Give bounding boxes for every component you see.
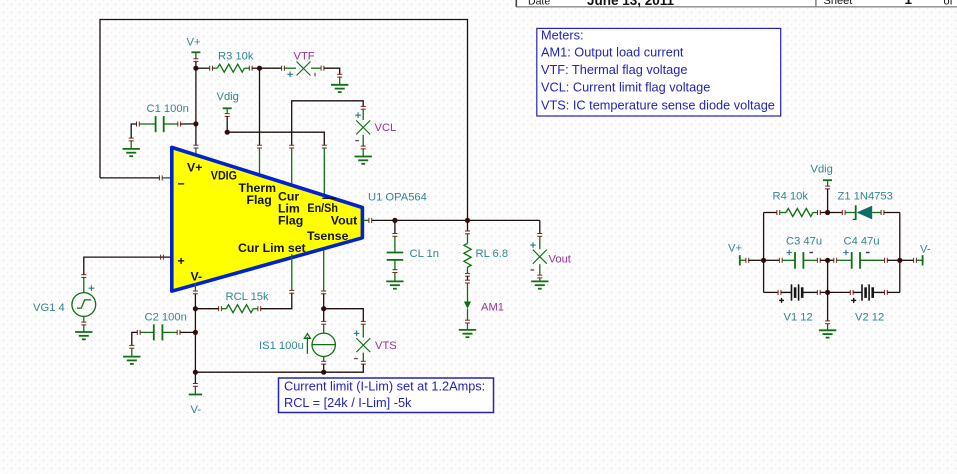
svg-text:R3 10k: R3 10k <box>218 50 254 62</box>
node junction battery center <box>825 290 830 295</box>
svg-text:Sheet: Sheet <box>824 0 853 7</box>
capacitor CL 1n <box>387 220 439 272</box>
svg-text:C4 47u: C4 47u <box>844 236 880 248</box>
pin cross C1 ground <box>129 138 134 141</box>
node junction left rail mid <box>761 258 766 263</box>
terminal V- bottom <box>189 386 202 416</box>
svg-text:RCL = [24k / I-Lim] -5k: RCL = [24k / I-Lim] -5k <box>284 395 412 410</box>
svg-text:V1 12: V1 12 <box>784 312 813 324</box>
ground VTF <box>339 77 341 84</box>
pin cross supply ground <box>825 321 830 324</box>
svg-text:VCL: Current limit flag voltag: VCL: Current limit flag voltage <box>541 79 710 94</box>
svg-text:IS1 100u: IS1 100u <box>259 340 304 352</box>
svg-text:Meters:: Meters: <box>541 27 584 42</box>
wire Therm Flag vertical <box>259 68 261 145</box>
pin cross op-amp Cur Lim Flag pin <box>289 145 294 148</box>
svg-text:VTS: IC temperature sense diod: VTS: IC temperature sense diode voltage <box>541 98 775 113</box>
node junction Tsense/VTS <box>321 306 326 311</box>
wire C2 left to ground <box>132 332 138 345</box>
svg-text:Date: Date <box>528 0 550 8</box>
pin lead En/Sh <box>323 148 325 197</box>
svg-text:Vdig: Vdig <box>217 91 239 103</box>
svg-text:+: + <box>178 254 185 268</box>
current limit note box <box>279 378 494 413</box>
wire center to ground <box>827 292 829 321</box>
svg-text:Flag: Flag <box>247 193 272 207</box>
svg-text:1: 1 <box>905 0 913 7</box>
generator VG1 4 <box>33 277 96 325</box>
svg-text:Current limit (I-Lim) set at 1: Current limit (I-Lim) set at 1.2Amps: <box>284 379 485 394</box>
node junction right rail mid <box>897 258 902 263</box>
svg-text:R4 10k: R4 10k <box>773 191 809 203</box>
terminal V- right circuit <box>914 244 931 266</box>
terminal V+ right circuit <box>728 242 749 265</box>
pin cross C2 ground <box>129 345 134 348</box>
node junction bottom rail <box>193 370 198 375</box>
node junction RL/feedback <box>465 218 470 223</box>
voltmeter VTF <box>282 50 324 77</box>
pin cross VTF ground <box>337 74 342 77</box>
svg-text:Vout: Vout <box>331 214 357 228</box>
svg-text:C2 100n: C2 100n <box>145 312 187 324</box>
pin cross VG1 top <box>81 275 86 278</box>
title block (bottom sliver) <box>516 0 957 7</box>
node junction C2 row <box>193 330 198 335</box>
pin lead Cur Lim Flag <box>291 148 293 189</box>
pin cross op-amp En/Sh pin <box>322 145 327 148</box>
pin cross op-amp Cur Lim set pin <box>289 290 294 293</box>
svg-text:AM1: Output load current: AM1: Output load current <box>541 45 684 60</box>
capacitor C1 100n <box>137 103 189 132</box>
resistor R3 10k <box>196 50 260 72</box>
svg-text:V+: V+ <box>187 37 201 49</box>
voltmeter VTS <box>354 321 397 364</box>
svg-text:CL 1n: CL 1n <box>410 248 439 260</box>
pin cross op-amp Tsense pin <box>321 291 326 294</box>
svg-text:VG1 4: VG1 4 <box>33 302 65 314</box>
current source IS1 100u <box>259 321 335 364</box>
pin lead op-amp V- pin <box>194 283 196 291</box>
capacitor C2 100n <box>137 312 187 341</box>
ground VCL <box>362 149 364 157</box>
wire VTF to ground <box>324 68 340 74</box>
svg-text:Tsense: Tsense <box>307 229 349 243</box>
svg-text:VTF: VTF <box>294 50 315 62</box>
wire IS1 to bottom rail <box>323 364 325 372</box>
battery V2 12 <box>828 284 900 323</box>
svg-text:VTF: Thermal flag voltage: VTF: Thermal flag voltage <box>541 62 687 77</box>
terminal V+ <box>191 51 200 53</box>
pin lead Cur Lim set <box>291 254 293 291</box>
node junction zener row <box>825 210 830 215</box>
pin cross op-amp noninv input <box>161 255 164 260</box>
ground C1 <box>130 141 132 149</box>
svg-text:June 13, 2011: June 13, 2011 <box>587 0 675 8</box>
pin lead inv input <box>162 177 175 179</box>
node junction R3/Therm <box>257 66 262 71</box>
pin cross op-amp inv input <box>159 175 162 180</box>
wire Vdig row to En/Sh <box>227 132 324 145</box>
meters note box <box>537 27 781 116</box>
voltmeter VCL <box>355 106 396 149</box>
svg-text:V-: V- <box>920 244 931 256</box>
svg-text:RCL 15k: RCL 15k <box>226 291 270 303</box>
ground AM1 <box>467 323 469 330</box>
pin cross V- terminal <box>193 384 198 387</box>
svg-text:VDIG: VDIG <box>211 169 237 183</box>
node junction Vdig <box>225 130 230 135</box>
wire C1 left to ground <box>131 124 136 138</box>
zener diode Z1 1N4753 <box>828 191 900 220</box>
node V+ rail top <box>187 37 201 62</box>
ground VG1 <box>83 325 85 332</box>
ammeter AM1 <box>464 276 504 323</box>
node junction V+/R3 <box>193 66 198 71</box>
ground C2 <box>131 348 133 356</box>
wire RCL to Cur Lim set pin <box>261 293 292 309</box>
wire bottom rail <box>195 371 323 373</box>
node junction C1/V+ rail <box>193 121 198 126</box>
ground supply center <box>827 324 829 330</box>
wire C2 right to V- rail <box>180 331 196 333</box>
wire right supply left rail <box>763 213 765 293</box>
wire noninverting input <box>84 257 171 275</box>
node junction center mid <box>825 258 830 263</box>
svg-text:AM1: AM1 <box>481 302 504 314</box>
wire V- rail to terminal <box>194 372 196 383</box>
capacitor C3 47u <box>764 236 828 269</box>
svg-text:U1 OPA564: U1 OPA564 <box>368 192 427 204</box>
ground Vout meter <box>539 278 541 281</box>
pin lead op-amp V+ <box>195 148 197 158</box>
wire output row <box>372 219 540 221</box>
op-amp U1 OPA564 <box>172 147 363 291</box>
node junction RCL row <box>193 306 198 311</box>
svg-text:V-: V- <box>191 270 203 284</box>
pin lead Therm Flag <box>259 148 261 179</box>
svg-text:Z1 1N4753: Z1 1N4753 <box>838 191 893 203</box>
wire C4 to V- terminal <box>900 259 914 261</box>
svg-text:Flag: Flag <box>278 214 303 228</box>
wire V+ rail down to op-amp V+ pin <box>195 124 197 145</box>
svg-text:V+: V+ <box>728 242 742 254</box>
pin cross op-amp Therm Flag pin <box>257 145 262 148</box>
terminal Vdig right <box>811 164 833 189</box>
svg-text:V2 12: V2 12 <box>855 312 884 324</box>
svg-text:Vout: Vout <box>549 253 572 265</box>
wire center rail <box>827 260 829 292</box>
terminal Vdig left <box>217 91 239 116</box>
wire R3 node to VTF <box>260 67 282 69</box>
wire V- rail <box>194 294 196 373</box>
pin lead Vout <box>362 219 369 221</box>
svg-text:V-: V- <box>191 404 202 416</box>
wire V+ terminal to R3 node <box>195 62 197 69</box>
svg-text:VCL: VCL <box>375 122 397 134</box>
wire Vdig right to node <box>827 189 829 213</box>
wire Tsense to IS1 <box>323 294 325 322</box>
wire VTS to bottom rail <box>324 364 364 372</box>
wire VCL branch to Cur Lim Flag <box>292 101 364 145</box>
wire feedback top rectangle <box>100 20 468 221</box>
resistor RCL 15k <box>195 291 269 313</box>
svg-text:Cur Lim set: Cur Lim set <box>238 241 306 255</box>
wire Vdig to node <box>226 116 228 132</box>
svg-text:V+: V+ <box>187 161 202 175</box>
wire right supply right rail <box>899 213 901 293</box>
ground CL <box>394 272 396 281</box>
svg-text:C3 47u: C3 47u <box>786 236 822 248</box>
wire C1 right to V+ rail <box>181 123 196 125</box>
pin cross op-amp V- pin <box>193 291 198 294</box>
wire inverting input <box>100 177 160 179</box>
wire V+ rail down to C1 node <box>195 68 197 124</box>
capacitor C4 47u <box>828 236 900 269</box>
pin cross op-amp Vout pin <box>369 218 372 223</box>
svg-text:−: − <box>178 177 185 191</box>
svg-text:Vdig: Vdig <box>811 164 833 176</box>
wire V+ terminal to rail <box>749 259 764 261</box>
pin lead Tsense <box>323 250 325 291</box>
node junction CL <box>392 218 397 223</box>
node junction IS1 bottom <box>321 370 326 375</box>
battery V1 12 <box>764 284 828 323</box>
svg-text:of: of <box>944 0 954 8</box>
pin cross op-amp V+ pin <box>193 145 198 148</box>
resistor RL 6.8 <box>464 220 508 276</box>
voltmeter Vout <box>530 220 572 278</box>
resistor R4 10k <box>764 191 828 217</box>
svg-text:RL 6.8: RL 6.8 <box>476 248 509 260</box>
svg-text:C1 100n: C1 100n <box>147 103 189 115</box>
wire VTS branch <box>324 309 364 322</box>
svg-text:VTS: VTS <box>375 340 397 352</box>
